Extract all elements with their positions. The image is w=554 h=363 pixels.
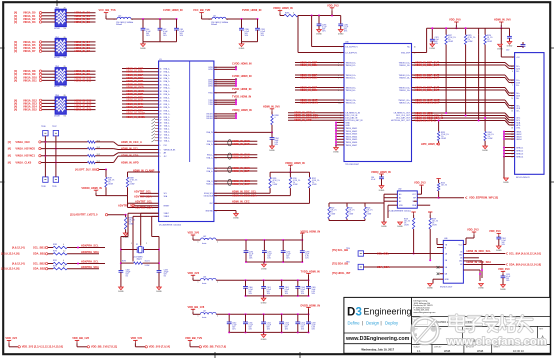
svg-text:10%: 10% <box>249 257 253 259</box>
inductor L42 <box>198 236 219 245</box>
svg-text:PVDD: PVDD <box>208 93 213 95</box>
svg-text:TXA_C-: TXA_C- <box>164 140 170 143</box>
svg-text:VDD_3V0: VDD_3V0 <box>498 267 510 271</box>
svg-text:ferrite: ferrite <box>202 242 206 245</box>
svg-text:DGND: DGND <box>379 190 385 192</box>
svg-text:SCL_BB2: SCL_BB2 <box>33 261 45 265</box>
svg-text:1/16W: 1/16W <box>129 224 134 226</box>
svg-text:RXA_1+: RXA_1+ <box>164 74 170 77</box>
U1 DVDD power pins <box>214 74 252 87</box>
svg-text:48: 48 <box>160 122 162 124</box>
IC U42 EEPROM 24C04 <box>388 189 417 213</box>
svg-text:DGND: DGND <box>333 152 339 154</box>
svg-text:VDD_3V3: VDD_3V3 <box>188 271 200 275</box>
svg-text:[4]: [4] <box>14 20 17 24</box>
svg-text:1: 1 <box>341 46 342 48</box>
U40 left DDC/CEC wires <box>288 111 344 123</box>
svg-text:2: 2 <box>512 66 513 68</box>
svg-text:DGND: DGND <box>338 34 344 36</box>
svg-text:VMRGLDR_BK: VMRGLDR_BK <box>164 149 177 151</box>
svg-text:TP51: TP51 <box>346 262 350 264</box>
IC U1 ADV7611 HDMI receiver <box>159 59 217 227</box>
svg-text:RXA_C-: RXA_C- <box>207 180 214 183</box>
svg-text:SCL_BB1: SCL_BB1 <box>33 245 45 249</box>
svg-text:D2-: D2- <box>516 71 519 73</box>
svg-text:10%: 10% <box>275 144 279 146</box>
svg-text:4X50R: 4X50R <box>54 28 60 30</box>
svg-text:RESET: RESET <box>164 206 170 208</box>
svg-text:HDMI_IN_CEC: HDMI_IN_CEC <box>232 200 250 204</box>
svg-text:10%: 10% <box>344 31 348 33</box>
svg-text:DDCA_SDA: DDCA_SDA <box>204 194 214 197</box>
svg-text:DGND: DGND <box>503 182 509 184</box>
capacitor C300 <box>243 280 253 296</box>
capacitor C302 <box>279 280 289 296</box>
resistor network RN3 <box>14 66 96 88</box>
power flag VDD_5V0 <box>449 18 461 30</box>
test point TP48 <box>41 177 48 188</box>
power flag VDDQ_HDMI_IN <box>273 6 293 15</box>
crystal X1 24.576MHz <box>121 243 159 260</box>
svg-text:2: 2 <box>341 52 342 54</box>
svg-text:HDMI_IN_HPD_C: HDMI_IN_HPD_C <box>415 118 436 122</box>
svg-text:HDMI_IN_D1N_OUT: HDMI_IN_D1N_OUT <box>415 75 440 79</box>
svg-text:54: 54 <box>160 141 162 143</box>
svg-text:VDDQ_HDMI_IN: VDDQ_HDMI_IN <box>285 161 305 165</box>
svg-text:RXB_2+: RXB_2+ <box>164 107 170 109</box>
U1 TVDD power pins <box>214 94 251 105</box>
svg-text:DGND: DGND <box>156 291 162 293</box>
svg-text:10K_1%: 10K_1% <box>349 210 356 212</box>
I2C translate row SDA <box>1 265 99 271</box>
capacitor C48 <box>174 19 185 42</box>
svg-text:ferrite: ferrite <box>202 282 206 285</box>
svg-text:I2C ADDRESS: 1001100: I2C ADDRESS: 1001100 <box>159 223 182 226</box>
ground DGND under C280 <box>239 42 245 50</box>
svg-text:SCL: SCL <box>164 193 167 195</box>
svg-text:7: 7 <box>512 85 513 87</box>
svg-text:RXA_5V: RXA_5V <box>206 131 213 134</box>
svg-text:10: 10 <box>511 98 513 100</box>
svg-text:10: 10 <box>338 102 340 104</box>
svg-text:HDMI_IN_D2N_OUT: HDMI_IN_D2N_OUT <box>415 63 440 67</box>
svg-text:SCL_80A [4,9,10,12,14,16]: SCL_80A [4,9,10,12,14,16] <box>509 251 541 255</box>
svg-text:45: 45 <box>160 114 162 116</box>
svg-text:DGND: DGND <box>497 48 503 50</box>
svg-text:DGND: DGND <box>261 339 267 341</box>
U1 RXA differential pairs <box>214 139 257 186</box>
svg-text:0: 0 <box>63 260 64 262</box>
U40 ground pins to DGND <box>333 122 344 154</box>
svg-text:40: 40 <box>160 97 162 99</box>
svg-text:5%: 5% <box>64 28 67 30</box>
svg-text:L41: L41 <box>213 16 216 18</box>
svg-text:300mA: 300mA <box>211 23 217 26</box>
svg-text:5: 5 <box>512 80 513 82</box>
svg-text:10%: 10% <box>301 329 305 331</box>
svg-text:RN4: RN4 <box>55 95 59 97</box>
svg-text:10%: 10% <box>305 257 309 259</box>
ground DGND under C46 <box>140 42 146 50</box>
svg-text:CVDD_HDMI_IN: CVDD_HDMI_IN <box>232 74 252 78</box>
svg-text:VDD_BB_TVS: VDD_BB_TVS <box>185 336 202 340</box>
U42 SCL/SDA wires down to I2C bus <box>414 201 431 205</box>
svg-text:VDD_3V3: VDD_3V3 <box>414 181 426 185</box>
svg-text:DGND: DGND <box>478 288 484 290</box>
svg-text:HOTPLUG_DET_OUT: HOTPLUG_DET_OUT <box>391 120 411 122</box>
svg-text:R504: R504 <box>367 208 371 210</box>
svg-text:RXA_1+: RXA_1+ <box>207 156 213 159</box>
watermark elecfans logo circle <box>410 318 438 344</box>
svg-text:9: 9 <box>512 95 513 97</box>
svg-text:TXA_0+: TXA_0+ <box>164 118 170 121</box>
svg-text:HDMI_IN_DDC_SCL: HDMI_IN_DDC_SCL <box>232 190 257 194</box>
svg-text:VIN1A_HSYNC0: VIN1A_HSYNC0 <box>15 147 35 151</box>
svg-text:300mA: 300mA <box>116 23 122 26</box>
svg-text:ESD_BYP: ESD_BYP <box>401 52 410 54</box>
svg-text:U46: U46 <box>444 238 447 240</box>
ground DGND VDD_3V0 bank <box>261 262 267 270</box>
svg-text:10%: 10% <box>285 293 289 295</box>
svg-text:R508: R508 <box>404 219 408 221</box>
svg-text:ADVTRT_SDA: ADVTRT_SDA <box>134 195 152 199</box>
svg-text:UTIL: UTIL <box>516 127 520 129</box>
svg-text:10K_1%: 10K_1% <box>441 185 448 187</box>
svg-text:16: 16 <box>414 46 416 48</box>
svg-text:HDMI_IN_D0N_OUT: HDMI_IN_D0N_OUT <box>415 88 440 92</box>
svg-text:10K_1%: 10K_1% <box>404 221 411 223</box>
capacitor C299 bulk 10uF <box>300 240 310 262</box>
U46 no-connect pins <box>437 266 444 275</box>
svg-text:www.elecfans.com: www.elecfans.com <box>446 336 547 348</box>
svg-text:37: 37 <box>160 88 162 90</box>
power flag DVDD_HDMI_IN riser <box>301 304 321 315</box>
svg-text:CVDD_HDMI_IN: CVDD_HDMI_IN <box>232 62 252 66</box>
svg-text:TMDSI_D0-: TMDSI_D0- <box>346 90 356 92</box>
svg-text:32: 32 <box>160 72 162 74</box>
svg-text:SHELL3: SHELL3 <box>516 153 523 155</box>
resistor R506 WP pullup <box>436 179 447 191</box>
svg-text:5: 5 <box>160 149 161 151</box>
wire TMDS output pairs U40 to J20 <box>412 60 515 110</box>
svg-text:VDD_BB_1V8: VDD_BB_1V8 <box>188 305 205 309</box>
capacitor C313 <box>279 314 289 332</box>
svg-text:DVDD_HDMI_IN: DVDD_HDMI_IN <box>301 304 321 308</box>
capacitor C301 <box>261 280 271 296</box>
wire VDD_3V3 rail to U40 supply pins <box>298 3 344 52</box>
VDDQ pull resistor trio near U1 <box>269 161 320 204</box>
svg-text:TMDSO_D1-: TMDSO_D1- <box>399 77 410 79</box>
svg-text:PVDD_HDMI_IN: PVDD_HDMI_IN <box>232 87 251 91</box>
svg-text:DGND: DGND <box>397 226 403 228</box>
svg-text:HDXPRH_SCL: HDXPRH_SCL <box>81 244 99 248</box>
U46 GND to DGND <box>427 279 443 290</box>
resistor R326 <box>484 28 493 44</box>
resistor R508 pullup <box>404 212 416 255</box>
capacitor C324 VDD_3V0 upper <box>489 229 506 252</box>
svg-text:TP48: TP48 <box>41 186 46 188</box>
svg-text:RN1: RN1 <box>55 8 59 10</box>
svg-text:RXA_2+: RXA_2+ <box>207 143 213 146</box>
I2C translate row SCL 1 <box>12 244 105 250</box>
svg-text:47.5K_1%: 47.5K_1% <box>273 180 281 182</box>
svg-text:VIN1A_D7: VIN1A_D7 <box>23 49 36 53</box>
svg-text:VDDIO_HDMI_IN: VDDIO_HDMI_IN <box>81 186 101 190</box>
svg-text:53: 53 <box>160 138 162 140</box>
svg-text:HDMI_IN_CLAMP: HDMI_IN_CLAMP <box>133 168 155 172</box>
svg-text:35: 35 <box>160 81 162 83</box>
svg-text:RXB_C+: RXB_C+ <box>164 114 171 116</box>
svg-text:0.1uF: 0.1uF <box>371 179 375 181</box>
resistor R327 <box>445 27 456 44</box>
svg-text:A1: A1 <box>399 197 401 200</box>
capacitor C47 <box>158 19 169 42</box>
svg-text:5%: 5% <box>64 86 67 88</box>
svg-text:1/16W: 1/16W <box>108 184 113 186</box>
net label HDXL_INT <box>332 271 351 275</box>
svg-text:RXA_1-: RXA_1- <box>207 154 213 157</box>
svg-text:SN74LVC2G07: SN74LVC2G07 <box>440 287 452 289</box>
power flag VDD_3V3 <box>188 271 201 280</box>
svg-text:TMDSI_D1-: TMDSI_D1- <box>346 77 356 79</box>
svg-text:RXA_0-: RXA_0- <box>207 167 213 170</box>
svg-text:GND4: GND4 <box>516 139 521 141</box>
svg-text:RXA_C+: RXA_C+ <box>206 183 213 186</box>
capacitor C281 <box>255 19 266 42</box>
svg-text:2.2: 2.2 <box>63 251 65 253</box>
ground DGND VDD_BB_1V8 bank <box>261 332 267 340</box>
capacitor C328 <box>507 28 513 48</box>
svg-text:R502: R502 <box>331 208 335 210</box>
svg-text:3: 3 <box>356 307 362 319</box>
svg-text:1/16W: 1/16W <box>468 41 473 43</box>
svg-text:1/10W: 1/10W <box>432 225 437 227</box>
svg-text:17: 17 <box>511 125 513 127</box>
svg-text:4X50R: 4X50R <box>54 115 60 117</box>
svg-text:ADVTRT_SCL: ADVTRT_SCL <box>134 190 152 194</box>
svg-text:TMDS_GND7: TMDS_GND7 <box>346 145 358 147</box>
U1 XTAL wires to crystal <box>133 213 159 261</box>
svg-text:16: 16 <box>511 122 513 124</box>
svg-text:CVDD_HDMI_IN: CVDD_HDMI_IN <box>163 8 183 12</box>
svg-text:HDMI_IN_CK2N: HDMI_IN_CK2N <box>126 115 145 119</box>
svg-text:I2C ADDRESSES: 1010xxx: I2C ADDRESSES: 1010xxx <box>388 209 411 212</box>
svg-text:TXA_0-: TXA_0- <box>164 121 170 124</box>
svg-text:SHELL4: SHELL4 <box>516 156 523 158</box>
svg-text:10%: 10% <box>285 329 289 331</box>
ADVTRT_LVDT row with R296 to ground <box>70 213 135 240</box>
svg-text:1/16W: 1/16W <box>448 41 453 43</box>
svg-text:4X50R: 4X50R <box>54 86 60 88</box>
svg-text:VDD_5V0 [7,9,14]: VDD_5V0 [7,9,14] <box>149 345 170 349</box>
svg-text:10%: 10% <box>312 329 316 331</box>
power flag VDD_BB_TVS bottom <box>185 336 226 349</box>
power flag TVDD_HDMI_IN riser <box>301 270 320 281</box>
capacitor C310 <box>227 314 237 332</box>
svg-text:TVDD_HDMI_IN: TVDD_HDMI_IN <box>301 270 320 274</box>
svg-text:10%: 10% <box>312 293 316 295</box>
svg-text:10K_1%: 10K_1% <box>331 210 338 212</box>
svg-text:SDA_80A [4,9,10,12,14,16]: SDA_80A [4,9,10,12,14,16] <box>509 262 541 266</box>
power flag VCC_BB_TVR <box>193 8 212 19</box>
svg-text:VCC_BB_TVR: VCC_BB_TVR <box>193 8 210 12</box>
svg-text:10%: 10% <box>322 31 326 33</box>
svg-text:Engineering: Engineering <box>364 307 412 317</box>
U1 GND pad to DGND <box>214 211 240 220</box>
svg-text:1/16W: 1/16W <box>349 214 354 216</box>
svg-text:5: 5 <box>160 145 161 147</box>
capacitor C283 <box>316 16 327 36</box>
svg-text:R290: R290 <box>293 178 297 180</box>
svg-text:VDD_BB_TVS [7,9]: VDD_BB_TVS [7,9] <box>203 345 226 349</box>
svg-text:2: 2 <box>217 241 218 243</box>
svg-text:[4,5,9,12,14,16]: [4,5,9,12,14,16] <box>1 267 19 271</box>
svg-text:10K_1%: 10K_1% <box>432 221 439 223</box>
svg-text:6: 6 <box>338 77 339 79</box>
svg-text:VDD_3V3: VDD_3V3 <box>467 228 479 232</box>
svg-text:1: 1 <box>198 316 199 318</box>
svg-text:11: 11 <box>512 105 514 107</box>
svg-text:10%: 10% <box>146 35 150 37</box>
inductor L47 <box>198 311 219 320</box>
svg-text:RXB_1+: RXB_1+ <box>164 101 170 103</box>
svg-text:10%: 10% <box>163 35 167 37</box>
svg-text:39: 39 <box>160 94 162 96</box>
capacitor C325 VDD_3V0 <box>498 267 510 291</box>
svg-text:RXA_0+: RXA_0+ <box>207 170 213 173</box>
svg-text:XTALN: XTALN <box>164 215 170 218</box>
svg-text:TMDS_GND6: TMDS_GND6 <box>346 142 358 144</box>
svg-text:VDDQ_HDMI_IN: VDDQ_HDMI_IN <box>232 108 252 112</box>
I2C translate row SCL <box>12 260 105 266</box>
svg-text:18: 18 <box>511 127 513 129</box>
svg-text:VDD_3V3: VDD_3V3 <box>327 3 339 7</box>
wire VDD_BB_1V8 rail <box>216 313 309 333</box>
svg-text:ferrite: ferrite <box>202 316 206 319</box>
inductor L46 <box>198 277 219 286</box>
svg-text:2B2: 2B2 <box>459 261 462 263</box>
svg-text:10%: 10% <box>249 329 253 331</box>
svg-text:44: 44 <box>160 110 162 112</box>
svg-text:36: 36 <box>160 85 162 87</box>
svg-text:HDMI_IN_D1P: HDMI_IN_D1P <box>232 156 249 160</box>
svg-text:R509: R509 <box>432 219 436 221</box>
logo D3 Engineering <box>347 307 412 326</box>
svg-text:HDMI_IN_5V0: HDMI_IN_5V0 <box>263 104 280 108</box>
wire VDD_5V0 rail <box>412 28 479 52</box>
svg-text:RN3: RN3 <box>55 66 59 68</box>
svg-text:SDA_BB1: SDA_BB1 <box>33 252 46 256</box>
resistor trio R502-R504 <box>328 203 384 221</box>
svg-text:HDMI_IN_CKP: HDMI_IN_CKP <box>232 182 250 186</box>
svg-text:VDD_EEPROM_WP [15]: VDD_EEPROM_WP [15] <box>469 195 498 199</box>
svg-text:0: 0 <box>275 117 276 119</box>
svg-text:HDMI_IN_SCL: HDMI_IN_SCL <box>121 147 139 151</box>
svg-text:VDDQ_HDMI_IN: VDDQ_HDMI_IN <box>301 229 321 233</box>
svg-text:41: 41 <box>160 101 162 103</box>
svg-text:L46: L46 <box>203 277 206 279</box>
svg-text:HDMI_IN_DDC_SDA: HDMI_IN_DDC_SDA <box>232 194 257 198</box>
watermark url text <box>446 336 547 348</box>
capacitor C292 <box>281 240 291 262</box>
svg-text:DWN BY: DWN BY <box>434 347 442 349</box>
svg-text:2: 2 <box>217 316 218 318</box>
J20 ground and shell pins to DGND <box>503 131 515 185</box>
wire DDC/CEC bus U40 to J20 <box>412 111 515 125</box>
svg-text:10%: 10% <box>267 257 271 259</box>
capacitor C291 <box>262 240 272 262</box>
svg-text:47.5K_1%: 47.5K_1% <box>312 180 320 182</box>
svg-text:ADVTRT_SDA: ADVTRT_SDA <box>135 205 153 209</box>
svg-text:10%: 10% <box>435 43 439 45</box>
resistor network RN4 <box>14 95 96 117</box>
svg-text:TMDS_GND5: TMDS_GND5 <box>346 139 358 141</box>
svg-text:GND: GND <box>346 125 351 127</box>
svg-text:KEY-19-24N-C3: KEY-19-24N-C3 <box>516 177 530 179</box>
svg-text:10%: 10% <box>249 293 253 295</box>
svg-text:[4]: [4] <box>8 154 11 158</box>
title block <box>344 297 550 353</box>
resistor R334 <box>482 117 494 152</box>
I2C translate row SDA 1 <box>1 250 99 256</box>
U1 RXA_5V pin with R288B and C284 <box>214 104 280 152</box>
svg-text:4: 4 <box>512 71 513 73</box>
svg-text:TXA_1+: TXA_1+ <box>164 124 170 127</box>
svg-text:VCC_BB_TVS: VCC_BB_TVS <box>99 8 116 12</box>
connector J20 HDMI receptacle <box>506 50 544 179</box>
resistor R329 <box>421 120 449 146</box>
capacitor C303 <box>295 280 305 296</box>
svg-text:DGND: DGND <box>261 302 267 304</box>
svg-text:1: 1 <box>131 243 132 245</box>
svg-text:[4]: [4] <box>8 140 11 144</box>
svg-text:A2: A2 <box>399 200 401 203</box>
svg-text:HDMI_IN_D0P: HDMI_IN_D0P <box>232 142 249 146</box>
svg-text:HDMI_IN_D1N: HDMI_IN_D1N <box>300 75 317 79</box>
svg-text:TMDSO_CK-: TMDSO_CK- <box>399 102 411 104</box>
svg-text:TMDS_GND1: TMDS_GND1 <box>346 128 358 130</box>
svg-text:SDA_BOA: SDA_BOA <box>377 265 390 269</box>
svg-text:DGND: DGND <box>118 291 124 293</box>
net label VDD_EEPROM_WP <box>439 195 499 199</box>
power flag VDD_BB_1V8 <box>188 305 205 314</box>
svg-text:1B2: 1B2 <box>459 255 462 257</box>
resistor R509 pullup <box>428 212 439 261</box>
svg-text:RXA_0+: RXA_0+ <box>164 67 170 70</box>
svg-text:DGND: DGND <box>381 226 387 228</box>
capacitor C312 <box>261 314 271 332</box>
svg-text:1/16W: 1/16W <box>441 138 446 140</box>
U1 left HDMI input bus wires <box>122 66 159 119</box>
svg-text:Design: Design <box>366 321 380 326</box>
svg-text:43: 43 <box>160 107 162 109</box>
power flag VCC_BB_TVS <box>99 8 118 19</box>
svg-text:TP46: TP46 <box>41 126 46 128</box>
svg-text:TP50: TP50 <box>346 248 350 250</box>
U42 address pin wires <box>384 194 397 218</box>
svg-text:RXA_2+: RXA_2+ <box>164 80 170 83</box>
capacitor C329 near J20 <box>497 42 525 50</box>
svg-text:10%: 10% <box>267 329 271 331</box>
svg-text:1:1: 1:1 <box>417 349 421 353</box>
svg-text:PVDD_HDMI_IN: PVDD_HDMI_IN <box>242 8 261 12</box>
svg-text:5: 5 <box>160 156 161 158</box>
test point TP46 <box>41 126 48 136</box>
svg-text:TMDSO_D0-: TMDSO_D0- <box>399 90 410 92</box>
svg-text:TVDD: TVDD <box>208 104 213 106</box>
svg-text:SCL_BOL: SCL_BOL <box>377 251 390 255</box>
svg-text:VDD_3V3 [2,3,4,11,12,13,14,1: VDD_3V3 [2,3,4,11,12,13,14,15,16] <box>22 345 63 349</box>
